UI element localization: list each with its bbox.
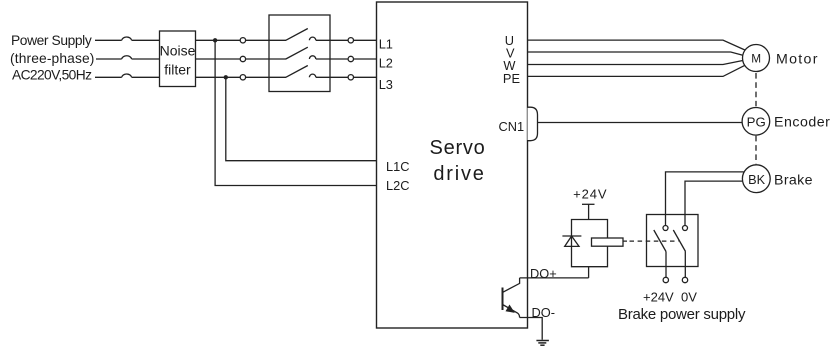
svg-text:M: M — [751, 52, 761, 66]
svg-text:CN1: CN1 — [499, 119, 525, 134]
noise filter box — [160, 31, 196, 87]
wire: blade left to bottom terminal — [665, 252, 667, 278]
wire: PE output — [528, 65, 745, 76]
svg-text:L2: L2 — [379, 56, 393, 71]
servo drive box — [377, 2, 528, 328]
junction dot phase T — [224, 75, 228, 79]
transistor emitter — [503, 305, 520, 318]
wire: DO+ to relay — [520, 277, 589, 279]
wire: brake upper lead to contactor — [666, 172, 744, 226]
contactor contact arc phase R — [309, 37, 315, 40]
ground bar 1 — [536, 340, 549, 342]
svg-text:Brake power supply: Brake power supply — [618, 306, 746, 323]
wire: phase S breaker to noise filter — [132, 58, 160, 60]
transistor base bar — [502, 288, 504, 311]
wire: U output — [528, 40, 745, 50]
wire: CN1 to encoder — [538, 122, 742, 124]
wire: drop from phase T junction to L1C — [226, 77, 377, 160]
contact circle left top — [663, 226, 668, 231]
svg-text:+24V: +24V — [573, 187, 607, 202]
wire: phase T input to breaker — [95, 76, 122, 78]
wire: phase T breaker to noise filter — [132, 76, 160, 78]
switch blade right — [673, 230, 685, 252]
CN1 connector bulge — [528, 107, 538, 141]
wire: terminal to contactor box phase T — [246, 76, 286, 78]
svg-text:Servo: Servo — [430, 137, 486, 159]
contactor switch blade phase S — [286, 47, 308, 59]
wire: terminal to servo drive L2 — [354, 58, 377, 60]
terminal circle phase T right — [348, 75, 353, 80]
svg-text:PG: PG — [747, 115, 766, 130]
svg-text:Encoder: Encoder — [774, 115, 830, 131]
contactor switch blade phase R — [286, 29, 308, 41]
wire: phase R input to breaker — [95, 39, 122, 41]
flyback diode triangle — [565, 236, 579, 246]
terminal circle phase R left — [240, 38, 245, 43]
svg-text:filter: filter — [164, 62, 191, 78]
terminal circle phase S right — [348, 56, 353, 61]
wire: filter to contactor terminal phase S — [196, 58, 241, 60]
wire: +24V down to relay loop — [588, 204, 590, 219]
ground bar 3 — [540, 344, 544, 346]
wire: filter to contactor terminal phase T — [196, 76, 241, 78]
ground bar 2 — [538, 342, 546, 344]
relay loop wire — [572, 220, 608, 278]
terminal circle phase T left — [240, 75, 245, 80]
svg-text:Motor: Motor — [776, 52, 819, 68]
wire: contact to box edge phase S — [316, 58, 348, 60]
bottom terminal circle right — [682, 277, 687, 282]
svg-text:drive: drive — [433, 163, 485, 185]
breaker arc phase T — [122, 74, 132, 77]
wire: filter to contactor terminal phase R — [196, 39, 241, 41]
svg-text:AC220V,50Hz: AC220V,50Hz — [12, 68, 92, 83]
+24V supply terminal bar — [582, 203, 595, 205]
wire: terminal to contactor box phase R — [246, 39, 286, 41]
wire: W output — [528, 61, 743, 65]
terminal circle phase S left — [240, 56, 245, 61]
contactor box MC — [269, 15, 330, 92]
wire: phase R breaker to noise filter — [132, 39, 160, 41]
svg-text:L2C: L2C — [386, 178, 409, 193]
terminal circle phase R right — [348, 38, 353, 43]
brake contactor box — [647, 215, 699, 267]
svg-text:+24V: +24V — [643, 289, 674, 304]
contactor switch blade phase T — [286, 66, 308, 78]
transistor collector — [503, 278, 520, 293]
switch blade left — [654, 230, 666, 252]
wire: phase S input to breaker — [96, 58, 122, 60]
flyback diode cathode bar — [562, 235, 581, 237]
wire: terminal to servo drive L3 — [354, 76, 377, 78]
svg-text:DO+: DO+ — [530, 266, 557, 281]
relay coil box — [592, 238, 624, 246]
svg-text:BK: BK — [748, 173, 765, 187]
wire: blade right to bottom terminal — [684, 252, 686, 278]
contact circle right top — [683, 226, 688, 231]
breaker arc phase R — [122, 37, 132, 40]
svg-text:L1C: L1C — [386, 159, 409, 174]
svg-text:Power Supply: Power Supply — [11, 33, 92, 48]
contactor contact arc phase T — [309, 74, 315, 77]
brake circle BK — [742, 165, 770, 193]
dashed linkage coil to contactor — [623, 240, 679, 242]
junction dot phase R — [213, 38, 217, 42]
svg-text:L3: L3 — [379, 77, 393, 92]
motor circle M — [743, 45, 770, 72]
wire: V output — [528, 52, 743, 55]
svg-text:Brake: Brake — [774, 173, 813, 189]
encoder circle PG — [742, 108, 770, 136]
wire: contact to box edge phase T — [316, 76, 348, 78]
svg-text:0V: 0V — [681, 289, 697, 304]
svg-text:Noise: Noise — [160, 43, 196, 59]
wire: contact to box edge phase R — [316, 39, 348, 41]
dashed shaft motor to encoder — [755, 73, 757, 106]
bottom terminal circle left — [663, 277, 668, 282]
svg-text:L1: L1 — [379, 37, 393, 52]
wire: brake lower lead to contactor — [685, 181, 742, 225]
dashed shaft encoder to brake — [755, 136, 757, 164]
breaker arc phase S — [122, 56, 132, 59]
svg-text:(three-phase): (three-phase) — [10, 51, 95, 66]
svg-text:PE: PE — [503, 71, 520, 86]
wire: DO- to ground — [520, 318, 543, 340]
wire: terminal to servo drive L1 — [354, 39, 377, 41]
transistor emitter arrowhead — [506, 305, 515, 313]
contactor contact arc phase S — [309, 56, 315, 59]
wire: drop from phase R junction to L2C — [215, 40, 376, 185]
wire: terminal to contactor box phase S — [246, 58, 286, 60]
